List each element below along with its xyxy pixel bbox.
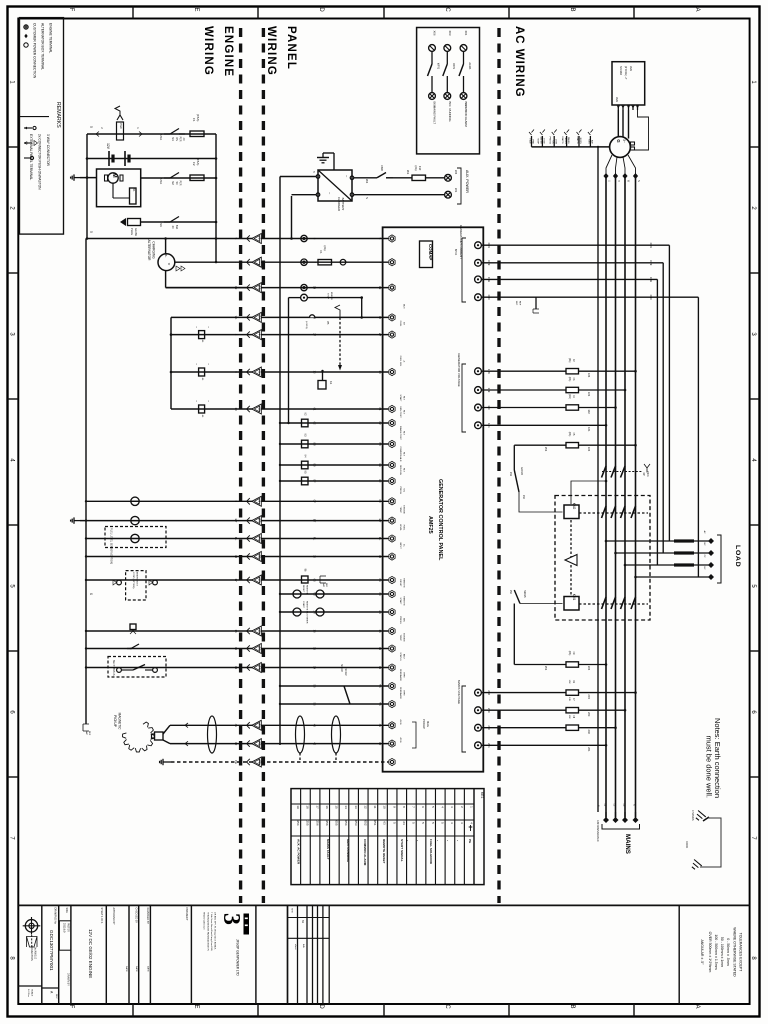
fuse F10 2A xyxy=(412,175,426,180)
wire KM1 control xyxy=(520,603,563,605)
node diamonds generator output xyxy=(603,173,608,179)
projection symbol cell xyxy=(25,920,37,932)
remarks legend box xyxy=(20,18,64,235)
svg-text:7 Hok Yuen Street East Hung Ho: 7 Hok Yuen Street East Hung Hom KLN, xyxy=(210,912,213,952)
terminal table KE1 xyxy=(291,789,484,885)
svg-text:16: 16 xyxy=(313,647,317,651)
svg-text:GENERATOR CONTROL PANEL: GENERATOR CONTROL PANEL xyxy=(437,479,443,561)
svg-text:FUEL LEVEL SENSOR (OPTION): FUEL LEVEL SENSOR (OPTION) xyxy=(110,528,113,564)
svg-text:(L/30/1): (L/30/1) xyxy=(305,321,307,329)
svg-text:TEMP: TEMP xyxy=(399,507,401,514)
svg-text:SHEET 1 OF 1: SHEET 1 OF 1 xyxy=(100,908,103,925)
svg-text:ALR/1: ALR/1 xyxy=(468,62,472,70)
svg-text:(2A): (2A) xyxy=(323,246,327,251)
panel terminal 88 xyxy=(389,440,395,447)
connector triangle 14 xyxy=(247,664,250,670)
connector triangle 19 xyxy=(247,284,250,290)
svg-text:DRAWING No: DRAWING No xyxy=(53,908,57,925)
panel terminal 7 xyxy=(389,259,395,266)
wires AVR to generator xyxy=(617,110,619,138)
svg-text:REVIEWED BY: REVIEWED BY xyxy=(146,908,149,925)
arrow connector left of PG9 xyxy=(96,132,99,137)
svg-text:REMOTE RESET: REMOTE RESET xyxy=(382,839,386,864)
svg-text:14: 14 xyxy=(258,666,262,670)
terminal C59 xyxy=(475,276,482,283)
svg-text:F: F xyxy=(68,1005,74,1009)
svg-text:FL: FL xyxy=(258,537,262,541)
fuel level sender circle xyxy=(131,534,139,542)
svg-text:SX460: SX460 xyxy=(619,66,623,75)
svg-text:S2: S2 xyxy=(171,181,175,185)
panel terminal 63 xyxy=(389,590,395,597)
svg-text:24: 24 xyxy=(402,821,406,825)
svg-text:SEC: SEC xyxy=(515,301,517,306)
wire starter to contact S2 xyxy=(141,177,216,179)
interlock dashed link xyxy=(570,520,572,595)
svg-text:C: C xyxy=(444,1004,450,1009)
svg-text:KE1: KE1 xyxy=(480,792,484,799)
load terminals diamonds xyxy=(708,538,714,544)
wire DC negative bus bottom xyxy=(87,238,248,240)
svg-text:AMF25: AMF25 xyxy=(427,516,433,534)
svg-text:COMMON ALR: COMMON ALR xyxy=(399,447,402,462)
svg-text:9F: 9F xyxy=(378,479,382,483)
svg-text:MAINS VOLTAGE: MAINS VOLTAGE xyxy=(457,680,461,704)
svg-text:41 IN: 41 IN xyxy=(399,719,401,725)
svg-text:3 WAY CONNECTOR: 3 WAY CONNECTOR xyxy=(46,134,50,167)
svg-text:HIGH: HIGH xyxy=(543,139,545,145)
svg-text:D: D xyxy=(318,7,324,12)
svg-text:PRESS: PRESS xyxy=(399,487,401,495)
svg-text:K1: K1 xyxy=(329,381,333,385)
relay contact rect K5 xyxy=(302,477,309,485)
svg-text:(2A): (2A) xyxy=(414,166,418,171)
magnetic pickup gear xyxy=(123,722,155,752)
connector triangle 4 xyxy=(247,331,250,337)
KM2 mech linkage dashed xyxy=(579,512,648,514)
svg-text:F2: F2 xyxy=(192,162,196,166)
svg-text:COMAP: COMAP xyxy=(428,244,433,260)
generator voltage terminal group xyxy=(462,364,466,432)
svg-text:63: 63 xyxy=(378,578,382,582)
svg-text:RPM: RPM xyxy=(402,691,404,696)
engine sender circle row 0F xyxy=(131,497,139,505)
svg-text:S3: S3 xyxy=(171,137,175,141)
switch S2 xyxy=(164,177,170,179)
svg-text:19: 19 xyxy=(313,286,317,290)
panel terminal 10 xyxy=(389,368,395,375)
KM2 contacts on buses xyxy=(602,506,607,518)
switch SCR/2 rows 55-56 xyxy=(344,686,350,704)
changeover dashed box KM1 KM2 xyxy=(555,496,650,621)
svg-text:63: 63 xyxy=(313,578,317,582)
wire row 24 y=612.0 xyxy=(280,611,388,613)
wire charger N to aux xyxy=(354,194,444,196)
svg-text:055: 055 xyxy=(335,820,339,825)
charger N vertical xyxy=(291,196,293,239)
emergency stop option dashed box xyxy=(126,571,146,600)
zone tick marks left/right edges xyxy=(8,146,19,148)
svg-text:FL: FL xyxy=(313,537,317,541)
svg-text:PER: PER xyxy=(179,137,182,142)
svg-text:CHARGER: CHARGER xyxy=(337,197,341,211)
svg-text:WHERE OTHERWISE STATED: WHERE OTHERWISE STATED xyxy=(733,927,737,977)
wire row 30 y=556.5 xyxy=(86,556,388,558)
svg-text:BELT STATUS: BELT STATUS xyxy=(112,660,115,676)
wire alternator W to row minus xyxy=(175,261,216,263)
mains voltage terminal group xyxy=(462,686,466,752)
wire row 62 y=423.0 xyxy=(280,422,388,424)
svg-text:A: A xyxy=(694,1004,700,1008)
svg-text:ANGULAR ± .5°: ANGULAR ± .5° xyxy=(700,939,704,965)
svg-text:99: 99 xyxy=(378,463,382,467)
fuse holder PG9 with flag xyxy=(117,122,124,140)
svg-text:APPROVED BY: APPROVED BY xyxy=(112,908,115,926)
svg-text:5.5A: 5.5A xyxy=(159,134,163,140)
svg-text:E: E xyxy=(193,7,199,11)
svg-text:TEMP: TEMP xyxy=(399,634,401,641)
wire row 63 y=594.0 xyxy=(280,593,388,595)
wire charger ac 262 xyxy=(354,177,377,179)
svg-text:M: M xyxy=(111,173,117,177)
svg-text:27: 27 xyxy=(378,333,382,337)
svg-text:(2A): (2A) xyxy=(568,394,571,399)
svg-text:16: 16 xyxy=(325,805,329,809)
svg-text:2x CONNECTOR PUSH ON/FASTON: 2x CONNECTOR PUSH ON/FASTON xyxy=(38,134,42,190)
door earth symbol xyxy=(690,859,702,871)
wire AVR excitation loop xyxy=(630,110,649,150)
relay contact rect K3 xyxy=(302,440,309,448)
ground symbol engine block xyxy=(74,177,80,179)
engine sender circle row ET xyxy=(131,516,139,524)
svg-text:COMMON ALARM: COMMON ALARM xyxy=(464,103,468,127)
wire row 10 y=372.0 xyxy=(171,371,388,373)
svg-text:16: 16 xyxy=(258,647,262,651)
AC bus L1 xyxy=(605,176,607,820)
svg-text:EARTH: EARTH xyxy=(576,137,579,145)
panel terminal 42 xyxy=(389,740,395,747)
svg-text:MAGNETIC: MAGNETIC xyxy=(118,713,122,731)
svg-text:E: E xyxy=(193,1004,199,1008)
wire hop on row 18 xyxy=(310,315,315,318)
load bracket xyxy=(717,535,721,583)
svg-text:CHASSIS: CHASSIS xyxy=(691,810,694,821)
alternator group vertical xyxy=(170,317,172,409)
wire battery positive top xyxy=(87,133,216,135)
svg-text:PROJECT: PROJECT xyxy=(185,908,189,921)
wire generator common left xyxy=(532,146,610,148)
svg-text:15: 15 xyxy=(258,629,262,633)
svg-text:RPM: RPM xyxy=(402,673,404,678)
wire row FL y=538.5 xyxy=(86,538,388,540)
svg-text:STOP (OPTION): STOP (OPTION) xyxy=(132,572,134,589)
svg-text:AC WIRING: AC WIRING xyxy=(513,26,525,98)
COMAP logo box xyxy=(420,241,433,268)
switch S6 glow xyxy=(164,221,170,223)
svg-text:253: 253 xyxy=(544,666,548,671)
svg-text:PG9: PG9 xyxy=(119,123,123,129)
svg-text:GEN. RUNNING: GEN. RUNNING xyxy=(346,839,350,862)
svg-text:PRESS: PRESS xyxy=(548,137,550,145)
svg-text:PIOTER: PIOTER xyxy=(66,923,69,932)
title block outline xyxy=(18,904,749,906)
wire row 19 y=287.6 xyxy=(166,287,389,289)
chassis earth symbol xyxy=(694,810,706,822)
panel terminal 9F xyxy=(389,477,395,484)
svg-text:PANEL: PANEL xyxy=(567,137,570,145)
svg-text:FUEL: FUEL xyxy=(399,321,401,327)
svg-text:MAINS CONT: MAINS CONT xyxy=(399,426,402,440)
svg-text:GEN CONT: GEN CONT xyxy=(399,406,401,418)
svg-text:254: 254 xyxy=(296,820,300,825)
wire alternator B+ to bus xyxy=(165,239,167,254)
wire row 99 y=465.0 xyxy=(280,464,388,466)
svg-text:DRAWN BY: DRAWN BY xyxy=(66,973,69,986)
diode rect row 27 xyxy=(199,331,205,339)
svg-text:42: 42 xyxy=(234,742,238,746)
fuse F1 on row 7 xyxy=(318,260,332,265)
svg-text:N 2-Dec: N 2-Dec xyxy=(27,989,29,998)
diode rect row 61 xyxy=(199,405,205,413)
wire ground to starter xyxy=(80,177,97,179)
ground symbol row ET xyxy=(74,520,80,522)
panel terminal 15 xyxy=(389,627,395,634)
wire F5 KM2 control xyxy=(514,444,566,446)
panel terminal 30 xyxy=(389,553,395,560)
connector triangle 15 xyxy=(247,628,250,634)
emergency stop terminals xyxy=(117,580,122,585)
svg-text:10: 10 xyxy=(383,805,387,809)
battery charger box xyxy=(318,170,352,201)
pickup wires xyxy=(163,725,170,734)
svg-text:103: 103 xyxy=(587,392,591,397)
starter motor M xyxy=(108,173,118,183)
wire row 63 y=580.0 xyxy=(86,579,388,581)
panel terminal 16 xyxy=(389,645,395,652)
panel terminal 56 xyxy=(389,700,395,707)
svg-text:(2A): (2A) xyxy=(568,377,571,382)
svg-text:12K: 12K xyxy=(568,715,570,719)
panel terminal 43 xyxy=(389,722,395,729)
svg-text:AVR: AVR xyxy=(615,97,619,102)
svg-text:AUX: AUX xyxy=(402,304,405,309)
svg-text:F: F xyxy=(68,8,74,12)
svg-text:262: 262 xyxy=(365,179,369,184)
legend symbol engine terminal xyxy=(24,43,28,47)
breaker QF1 3P contacts xyxy=(602,466,607,478)
wire row 16 y=648.5 xyxy=(86,648,388,650)
panel terminal 19 xyxy=(389,284,395,291)
KE1 table grid xyxy=(473,789,475,885)
svg-text:5: 5 xyxy=(89,126,93,128)
svg-text:204: 204 xyxy=(454,170,458,175)
svg-text:-: - xyxy=(258,262,262,263)
svg-text:43: 43 xyxy=(313,724,317,728)
bus wire battery left vertical xyxy=(86,134,88,239)
svg-text:30: 30 xyxy=(234,555,238,559)
AVR box xyxy=(612,62,645,105)
battery charger terminals xyxy=(316,175,320,179)
svg-text:PRE: PRE xyxy=(532,140,534,145)
section separator dashed line engine/panel 1 xyxy=(239,28,242,903)
svg-text:C39: C39 xyxy=(649,260,653,266)
svg-text:RLY: RLY xyxy=(402,452,404,457)
svg-text:START: START xyxy=(302,601,305,609)
svg-text:REMARKS: REMARKS xyxy=(55,102,61,128)
svg-text:30: 30 xyxy=(378,555,382,559)
AC bus N xyxy=(635,176,637,820)
svg-text:202: 202 xyxy=(587,730,591,735)
load CT bars xyxy=(674,539,694,542)
connector triangle PE xyxy=(247,759,250,765)
svg-text:101: 101 xyxy=(587,427,591,432)
starter solenoid xyxy=(130,188,137,204)
svg-text:LEVEL: LEVEL xyxy=(399,524,401,532)
panel terminal 62 xyxy=(389,419,395,426)
svg-text:ENGINE TERMINAL: ENGINE TERMINAL xyxy=(49,23,53,53)
panel terminal 61 xyxy=(389,405,395,412)
wire row PE dashed shield xyxy=(171,761,388,763)
svg-text:(2A): (2A) xyxy=(568,651,571,656)
svg-text:63: 63 xyxy=(378,592,382,596)
shield ground symbol xyxy=(163,761,171,763)
panel terminal 0F xyxy=(389,498,395,505)
mains bracket xyxy=(602,824,640,829)
relay outputs box xyxy=(417,28,480,154)
svg-text:WIRING: WIRING xyxy=(202,26,214,76)
svg-text:30: 30 xyxy=(313,555,317,559)
battery 12V cells xyxy=(87,158,216,160)
terminal 209 xyxy=(475,707,482,714)
panel terminal 24 xyxy=(389,608,395,615)
contactor coil KM1 xyxy=(564,597,579,611)
terminal 101 xyxy=(475,422,482,429)
svg-text:5: 5 xyxy=(89,231,93,233)
svg-text:WATER: WATER xyxy=(540,136,543,144)
section separator dashed line engine/panel 2 xyxy=(262,28,265,903)
svg-text:FUEL SOLENOID: FUEL SOLENOID xyxy=(429,839,433,865)
svg-text:19: 19 xyxy=(258,286,262,290)
contactor coil KM2 xyxy=(564,505,579,519)
belt status dashed box xyxy=(108,657,166,678)
svg-text:GENERATOR CURRENT: GENERATOR CURRENT xyxy=(459,225,463,259)
bus wire battery right vertical xyxy=(215,134,217,262)
svg-text:(3 WIRE) +?: (3 WIRE) +? xyxy=(624,66,627,80)
wire row 88 y=444.0 xyxy=(280,443,388,445)
plus circle on row 7 xyxy=(340,259,346,265)
svg-text:255: 255 xyxy=(306,820,310,825)
svg-text:15: 15 xyxy=(335,805,339,809)
svg-text:13: 13 xyxy=(354,805,358,809)
svg-text:MOV/2: MOV/2 xyxy=(340,664,343,672)
svg-text:41: 41 xyxy=(234,724,238,728)
svg-text:S: S xyxy=(89,593,93,595)
terminal 201 xyxy=(475,742,482,749)
svg-text:FUEL: FUEL xyxy=(402,525,404,531)
panel DC positive bus vertical xyxy=(279,177,281,746)
svg-text:EMERGENCY: EMERGENCY xyxy=(136,572,138,587)
svg-text:12V: 12V xyxy=(106,143,110,150)
panel terminal FL xyxy=(389,535,395,542)
svg-text:NEG: NEG xyxy=(588,139,590,144)
wires generator current CT xyxy=(481,244,669,246)
svg-text:CHECKED BY: CHECKED BY xyxy=(135,908,138,924)
relay K1 box xyxy=(318,381,326,390)
svg-text:CHARGING: CHARGING xyxy=(152,241,156,259)
terminal C90 xyxy=(475,294,482,301)
KM1 mech linkage dashed xyxy=(579,603,648,605)
svg-text:BELT: BELT xyxy=(402,654,404,660)
wire to KM2 coil xyxy=(519,492,563,512)
fuse F1 115A xyxy=(190,131,204,137)
panel terminal 63 xyxy=(389,576,395,583)
svg-text:12K: 12K xyxy=(568,697,570,701)
connector triangle ET xyxy=(247,517,250,523)
wire charger ground xyxy=(323,152,334,154)
wire row 7 y=262.2 xyxy=(216,261,388,263)
svg-text:X01: X01 xyxy=(464,31,468,36)
svg-text:ET: ET xyxy=(234,519,238,523)
svg-text:C: C xyxy=(444,7,450,12)
svg-text:REV: REV xyxy=(55,994,57,999)
svg-text:DATE: DATE xyxy=(135,966,138,972)
svg-text:17: 17 xyxy=(258,578,262,582)
svg-text:FL: FL xyxy=(234,537,238,541)
svg-text:AVR: AVR xyxy=(629,66,633,71)
svg-text:REF: REF xyxy=(519,301,521,306)
svg-text:+: + xyxy=(343,260,347,262)
generator current terminal group xyxy=(462,238,466,302)
svg-text:OP/1: OP/1 xyxy=(452,63,456,69)
svg-text:62: 62 xyxy=(313,421,317,425)
svg-text:X06: X06 xyxy=(433,31,437,36)
svg-text:REMOTE: REMOTE xyxy=(402,596,404,606)
generator output wires to diamonds xyxy=(606,155,612,176)
wire row 55 y=686.0 xyxy=(280,685,388,687)
svg-text:204: 204 xyxy=(587,694,591,699)
svg-text:14: 14 xyxy=(313,666,317,670)
twisted pair symbols xyxy=(208,716,217,753)
svg-text:3P: 3P xyxy=(642,472,646,476)
ref bat bracket xyxy=(83,724,89,731)
svg-text:X03: X03 xyxy=(448,31,452,36)
svg-text:MAINS FAULT: MAINS FAULT xyxy=(433,106,437,124)
panel terminal 55 xyxy=(389,682,395,689)
relay contact rect K4 xyxy=(302,461,309,469)
svg-text:PANEL: PANEL xyxy=(285,26,297,70)
svg-text:16: 16 xyxy=(378,647,382,651)
wire row 18 y=317.4 xyxy=(171,316,388,318)
svg-text:N: N xyxy=(637,180,640,182)
svg-text:14: 14 xyxy=(234,666,238,670)
svg-text:0F: 0F xyxy=(378,500,382,504)
svg-text:C59: C59 xyxy=(649,277,653,283)
svg-text:START: START xyxy=(399,598,402,606)
svg-text:7A: 7A xyxy=(234,316,238,320)
panel terminal 14 xyxy=(389,664,395,671)
legend symbol external panel terminal xyxy=(24,127,32,129)
connector triangle 7A xyxy=(247,314,250,320)
svg-text:88: 88 xyxy=(313,442,317,446)
svg-text:052: 052 xyxy=(363,820,367,825)
svg-text:3: 3 xyxy=(218,913,244,925)
panel terminal 99 xyxy=(389,461,395,468)
svg-text:C90: C90 xyxy=(649,295,653,301)
fuse F2 15A xyxy=(190,175,204,181)
svg-text:B: B xyxy=(569,7,575,11)
interlock triangle xyxy=(565,555,577,566)
ground symbol battery charger xyxy=(317,157,329,159)
